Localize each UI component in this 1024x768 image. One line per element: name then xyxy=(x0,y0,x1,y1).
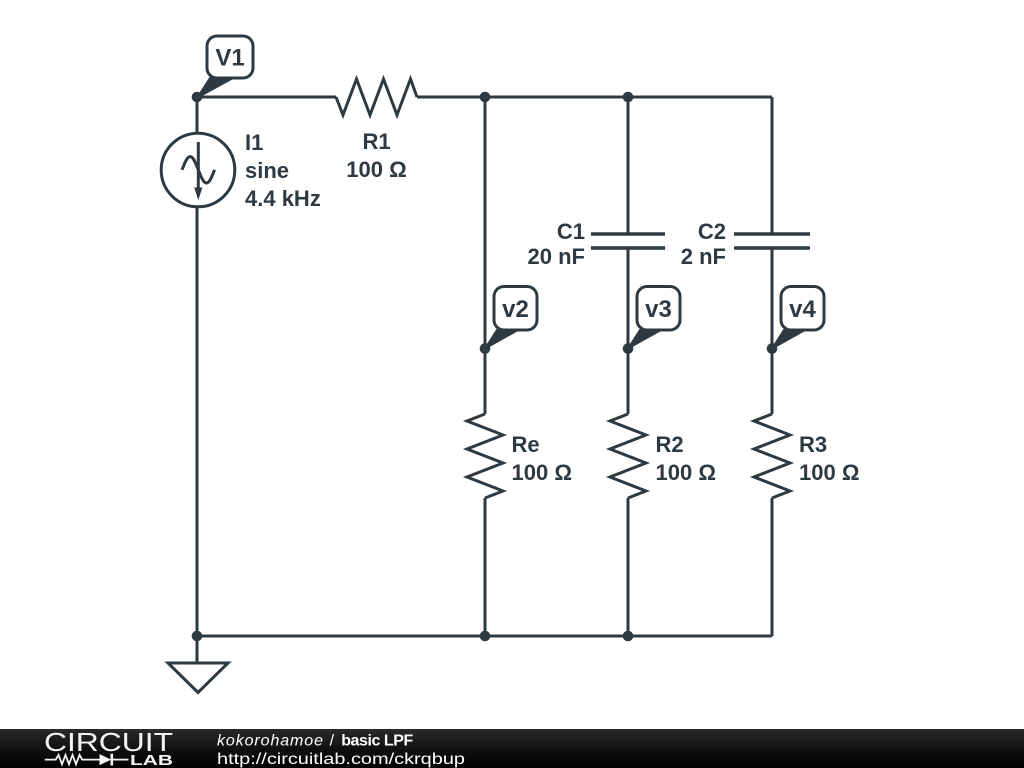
node junction bottom v3 xyxy=(623,631,634,642)
svg-text:20 nF: 20 nF xyxy=(528,244,585,269)
svg-text:v2: v2 xyxy=(502,296,529,323)
node junction top v3 xyxy=(623,92,634,103)
resistor Re xyxy=(467,414,503,498)
svg-text:R2: R2 xyxy=(656,432,684,457)
svg-text:http://circuitlab.com/ckrqbup: http://circuitlab.com/ckrqbup xyxy=(217,751,465,768)
wire v3 branch lower xyxy=(627,498,630,636)
svg-text:C1: C1 xyxy=(557,219,585,244)
wire left branch lower xyxy=(196,207,199,636)
node dot V1 xyxy=(192,92,203,103)
current source I1 arrow line xyxy=(197,142,200,188)
svg-text:R3: R3 xyxy=(799,432,827,457)
node junction bottom left xyxy=(192,631,203,642)
svg-text:kokorohamoe / basic LPF: kokorohamoe / basic LPF xyxy=(217,733,413,750)
node dot v2 xyxy=(480,343,491,354)
flag V1 xyxy=(198,36,254,98)
svg-text:V1: V1 xyxy=(215,45,244,72)
wire v4 branch middle xyxy=(771,248,774,414)
bottom wire xyxy=(197,635,772,638)
capacitor C1 plates xyxy=(591,234,665,248)
current source I1 circle xyxy=(161,133,235,207)
svg-text:Re: Re xyxy=(512,432,540,457)
wire v2 branch upper xyxy=(484,97,487,414)
svg-text:I1: I1 xyxy=(245,130,263,155)
node dot v4 xyxy=(767,343,778,354)
capacitor C2 plates xyxy=(734,234,810,248)
svg-text:100 Ω: 100 Ω xyxy=(656,460,716,485)
flag v4 xyxy=(772,287,824,349)
ground symbol xyxy=(168,663,228,693)
node junction top v2 xyxy=(480,92,491,103)
wire top left node to R1 xyxy=(197,96,336,99)
svg-text:v3: v3 xyxy=(645,296,672,323)
svg-text:2 nF: 2 nF xyxy=(681,244,726,269)
wire v3 branch middle xyxy=(627,248,630,414)
node junction bottom v2 xyxy=(480,631,491,642)
current source I1 sine xyxy=(182,157,215,184)
wire v4 branch lower xyxy=(771,498,774,636)
wire R1 to top-right corner xyxy=(417,96,772,99)
flag v3 xyxy=(628,287,680,349)
svg-text:100 Ω: 100 Ω xyxy=(512,460,572,485)
wire v2 branch lower xyxy=(484,498,487,636)
ground stem wire xyxy=(196,636,199,663)
wire v3 branch upper xyxy=(627,97,630,234)
flag v2 xyxy=(485,287,537,349)
resistor R1 xyxy=(336,79,417,115)
svg-text:LAB: LAB xyxy=(130,753,173,768)
resistor R2 xyxy=(610,414,646,498)
wire right side down xyxy=(771,97,774,234)
svg-text:100 Ω: 100 Ω xyxy=(346,157,406,182)
node dot v3 xyxy=(623,343,634,354)
svg-text:C2: C2 xyxy=(698,219,726,244)
svg-text:R1: R1 xyxy=(362,129,390,154)
svg-text:v4: v4 xyxy=(789,296,816,323)
CircuitLab logo resistor-diode glyph xyxy=(45,754,129,766)
resistor R3 xyxy=(754,414,790,498)
arrowhead of I1 xyxy=(194,188,202,201)
wire left branch upper xyxy=(196,97,199,133)
svg-text:100 Ω: 100 Ω xyxy=(799,460,859,485)
svg-text:sine: sine xyxy=(245,158,289,183)
svg-text:4.4 kHz: 4.4 kHz xyxy=(245,186,321,211)
